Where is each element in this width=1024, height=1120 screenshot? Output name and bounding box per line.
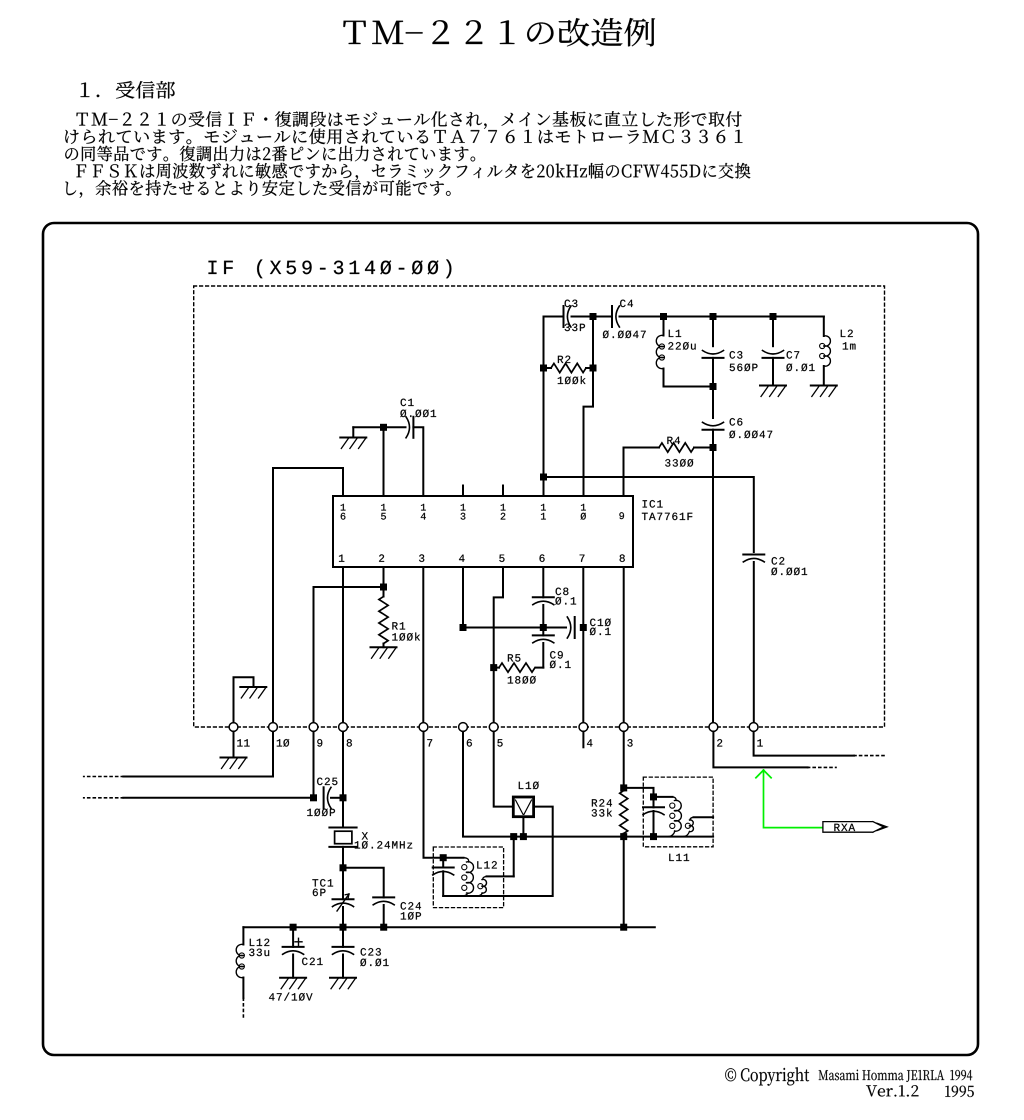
- module pin 11: [229, 723, 238, 732]
- wire: [572, 316, 612, 318]
- ground below pin11: [233, 732, 235, 758]
- coil L12 primary: [443, 857, 463, 859]
- inductor L1: [663, 317, 665, 336]
- body line 1: [77, 111, 742, 129]
- label IF (X59-314Ø-ØØ): [209, 260, 452, 279]
- dotted tail pin1: [854, 755, 886, 757]
- module pin 4: [579, 723, 588, 732]
- wire: [620, 316, 824, 318]
- label 4: [587, 739, 592, 746]
- capacitor C6: [712, 387, 714, 419]
- label 4: [459, 555, 464, 562]
- label L1Ø: [519, 782, 539, 790]
- wire pin15: [383, 427, 385, 496]
- label C8: [556, 588, 569, 596]
- wire pin7 drop: [582, 567, 584, 723]
- resistor R4: [624, 448, 660, 497]
- node C24 bus: [380, 924, 387, 931]
- capacitor C3 33P: [563, 306, 565, 327]
- label C3: [730, 351, 743, 359]
- dotted tail L12: [242, 998, 244, 1018]
- capacitor C25: [314, 797, 317, 799]
- label 8: [347, 739, 352, 747]
- copyright4: [945, 1086, 973, 1097]
- capacitor C1: [412, 417, 414, 438]
- label 33u: [249, 949, 269, 957]
- capacitor C24: [373, 896, 394, 898]
- ground under L2: [811, 385, 837, 387]
- node pin4: [460, 624, 467, 631]
- label 18ØØ: [508, 676, 536, 684]
- wire R24 to pin3bus: [623, 837, 625, 928]
- module pin 8: [339, 723, 348, 732]
- node C6/R4 junction: [710, 444, 717, 451]
- label L12: [477, 861, 497, 868]
- node R2 left: [540, 365, 547, 372]
- label Ø.Ø1: [360, 959, 388, 967]
- wire pin1 out: [754, 732, 854, 756]
- label 1Ø.24MHz: [355, 841, 412, 849]
- label C9: [550, 651, 563, 659]
- dotted tail pin2: [808, 766, 836, 768]
- label Ø.1: [555, 597, 576, 605]
- wire pin2 to pin9: [314, 587, 384, 723]
- node L10 bottom-bus: [520, 833, 527, 840]
- wire: [544, 316, 563, 318]
- label 1: [461, 504, 466, 511]
- label L2: [841, 330, 853, 337]
- node pin3 bus: [620, 924, 627, 931]
- label C6: [730, 418, 743, 426]
- label 1ØØk: [558, 376, 586, 384]
- ground above pin11: [234, 677, 254, 722]
- label L1: [669, 330, 681, 337]
- label 9: [317, 739, 322, 747]
- capacitor C7: [772, 317, 774, 347]
- label 47/1ØV: [269, 993, 312, 1001]
- module pin 3: [619, 723, 628, 732]
- module pin 6: [459, 723, 468, 732]
- label 5: [499, 555, 504, 562]
- wire: [353, 426, 405, 428]
- label 5: [381, 513, 386, 520]
- label 9: [619, 512, 624, 519]
- node L10 left-bus: [510, 833, 517, 840]
- label 11: [237, 739, 249, 746]
- wire L10 right: [443, 807, 553, 896]
- label 1Ø: [277, 739, 290, 747]
- stub below pin4: [582, 732, 584, 748]
- copyright1: [725, 1067, 809, 1085]
- wire pin5 to L10: [494, 732, 514, 807]
- bus wire: [243, 926, 654, 928]
- wire pin8 down: [342, 732, 344, 828]
- label 56ØP: [730, 364, 758, 372]
- wire pin10 out: [123, 732, 273, 777]
- wire L10 bottom: [522, 817, 524, 837]
- label 1: [341, 504, 346, 511]
- label Ø.ØØ1: [771, 568, 807, 576]
- label C4: [620, 300, 633, 308]
- label 1ØØk: [392, 633, 420, 641]
- label 3: [419, 554, 424, 562]
- resistor R2: [544, 367, 552, 369]
- node L11 top: [650, 793, 657, 800]
- label 6: [341, 513, 346, 520]
- stub pin12: [502, 486, 504, 497]
- wire L1 bottom: [664, 386, 714, 388]
- coil L11 primary: [654, 796, 673, 798]
- label 1m: [843, 342, 856, 349]
- wire pin5 jog: [494, 567, 503, 723]
- node L1 top: [660, 313, 667, 320]
- label 1: [581, 504, 586, 511]
- label 1: [381, 504, 386, 511]
- label 2: [717, 739, 722, 746]
- node pin7 mid: [580, 624, 587, 631]
- module pin 10: [269, 723, 278, 732]
- resistor R1: [383, 587, 385, 597]
- label C24: [401, 902, 421, 910]
- body line 3: [65, 146, 475, 162]
- label 8: [620, 554, 625, 562]
- wire pin4 drop: [462, 567, 464, 628]
- op-amp IC1 TA7761F box: [333, 496, 633, 567]
- ground near pin15: [340, 437, 366, 439]
- L12 module dashed box: [433, 847, 503, 908]
- label 1ØP: [401, 912, 421, 920]
- label 5: [497, 739, 502, 746]
- capacitor C10: [543, 627, 566, 629]
- dotted tail pin10: [84, 776, 124, 778]
- label 1: [339, 555, 344, 562]
- label C2: [772, 557, 785, 565]
- label RXA: [834, 824, 855, 831]
- label C21: [302, 958, 323, 966]
- dotted tail y798: [84, 797, 124, 799]
- label C7: [787, 351, 800, 359]
- capacitor C23: [342, 927, 344, 947]
- resistor R5: [536, 667, 543, 669]
- wire y627: [463, 627, 543, 629]
- node C25 right: [340, 794, 347, 801]
- label 33k: [592, 809, 612, 817]
- resistor R24: [623, 788, 625, 791]
- capacitor C21 +: [292, 927, 294, 947]
- label IC1: [643, 500, 663, 508]
- label 6: [467, 739, 472, 747]
- wire pin2: [383, 567, 385, 587]
- ground under C7: [760, 385, 786, 387]
- wire pin2 out: [713, 732, 807, 768]
- capacitor C9: [542, 628, 544, 636]
- ground under R1: [371, 646, 397, 648]
- ground under C23: [330, 977, 356, 979]
- body line 2: [65, 129, 742, 145]
- label 3: [461, 513, 466, 520]
- stub pin13: [462, 486, 464, 497]
- capacitor in L12: [442, 858, 444, 868]
- inductor L2: [823, 317, 825, 337]
- module pin 1: [749, 723, 758, 732]
- IF module dashed box: [194, 286, 885, 727]
- node L1/C3 junction: [710, 383, 717, 390]
- node pin2: [380, 584, 387, 591]
- capacitor C3 560P: [712, 317, 714, 347]
- label 33P: [565, 324, 585, 332]
- capacitor C2: [743, 554, 764, 556]
- node C7 top: [770, 313, 777, 320]
- trimmer TC1: [342, 868, 344, 899]
- node C25 left: [310, 794, 317, 801]
- node R24 top: [620, 784, 627, 791]
- wire X to C24: [343, 868, 384, 898]
- node AGC wire: [540, 474, 547, 481]
- label 6: [540, 554, 545, 562]
- wire pin8 drop: [623, 567, 625, 723]
- label Ø.Ø1: [786, 364, 814, 372]
- label 1: [757, 739, 762, 746]
- ground under C21: [280, 977, 306, 979]
- wire pin3 drop: [422, 567, 424, 723]
- label Ø: [581, 513, 586, 520]
- wire pin1 drop: [342, 567, 344, 723]
- label 1ØØP: [307, 809, 335, 817]
- module pin 7: [419, 723, 428, 732]
- label 6P: [313, 889, 326, 897]
- wire sec top riser: [513, 837, 515, 877]
- wire pin16 route: [273, 468, 343, 723]
- green wire to RXA: [756, 770, 822, 828]
- label Ø.ØØ1: [400, 410, 436, 418]
- wire x713 drop: [712, 448, 714, 728]
- label 33ØØ: [665, 459, 693, 467]
- node X/TC1: [340, 864, 347, 871]
- label Ø.ØØ47: [729, 431, 772, 439]
- wire pin9 bus: [313, 732, 315, 798]
- label 1: [501, 504, 506, 511]
- label X: [362, 832, 368, 839]
- label L12: [250, 939, 269, 946]
- label 1: [541, 504, 546, 511]
- title: [343, 18, 655, 46]
- label R24: [592, 799, 612, 806]
- wire y477 to C2: [544, 477, 754, 552]
- label 22Øu: [668, 342, 695, 350]
- label 1: [541, 513, 546, 520]
- wire y798: [123, 797, 313, 799]
- node top x593: [590, 313, 597, 320]
- wire pin3 down: [623, 732, 625, 788]
- body line 4: [76, 163, 750, 181]
- wire: [342, 847, 344, 868]
- label R2: [558, 356, 570, 363]
- label R5: [508, 654, 521, 661]
- node R5/pin5: [490, 664, 497, 671]
- border frame: [43, 223, 978, 1055]
- copyright2: [819, 1070, 972, 1082]
- capacitor C8: [542, 567, 544, 597]
- label Ø.ØØ47: [603, 331, 646, 339]
- module pin 5: [489, 723, 498, 732]
- wire R24 top to L11: [624, 788, 654, 797]
- module pin 2: [709, 723, 718, 732]
- wire pin11 riser: [543, 317, 545, 497]
- wire pin7 to L12box: [424, 732, 444, 858]
- node L11 bottom: [650, 833, 657, 840]
- label C25: [317, 778, 337, 786]
- label L11: [669, 854, 689, 861]
- capacitor in L11: [653, 797, 655, 807]
- RXA tag: [823, 822, 887, 833]
- label Ø.1: [590, 628, 611, 636]
- wire pin10 riser: [584, 317, 594, 497]
- label C1: [401, 399, 414, 407]
- node C3b top: [710, 313, 717, 320]
- label TC1: [312, 879, 333, 887]
- label R4: [667, 437, 680, 444]
- label 1: [421, 504, 426, 511]
- label 2: [379, 554, 384, 561]
- wire: [413, 427, 423, 496]
- L11 module dashed box: [643, 777, 713, 847]
- node L12 in: [440, 854, 447, 861]
- label C1Ø: [590, 619, 611, 627]
- label C23: [361, 948, 381, 956]
- node R24 bottom: [620, 833, 627, 840]
- label 7: [427, 739, 432, 746]
- label 2: [501, 513, 506, 520]
- inductor L12 33u: [242, 927, 244, 944]
- capacitor C4: [611, 306, 613, 327]
- copyright3: [866, 1085, 918, 1096]
- coil L12 secondary: [487, 875, 514, 877]
- node pin15 top: [380, 424, 387, 431]
- coil L11 secondary: [694, 816, 714, 818]
- heading: [81, 81, 175, 98]
- label 7: [580, 555, 585, 562]
- label C3: [565, 300, 578, 308]
- label 3: [627, 739, 632, 747]
- node C21: [290, 924, 297, 931]
- filter L10: [513, 797, 533, 817]
- label R1: [392, 622, 405, 629]
- node C8/C9/C10: [540, 624, 547, 631]
- wire pin6 bus: [463, 732, 713, 837]
- crystal X1 10.24MHz: [329, 827, 356, 829]
- label 4: [421, 513, 426, 520]
- body line 5: [65, 180, 450, 198]
- label Ø.1: [550, 661, 571, 669]
- module pin 9: [309, 723, 318, 732]
- node C23: [340, 924, 347, 931]
- label TA7761F: [642, 513, 692, 521]
